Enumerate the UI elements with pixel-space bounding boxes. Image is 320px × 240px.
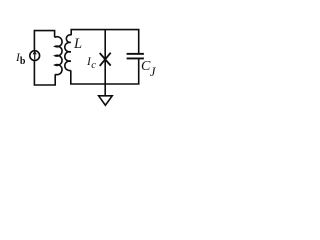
current source Ib arrow head bbox=[33, 52, 36, 55]
wire: right loop bottom bbox=[71, 59, 140, 84]
ground triangle bbox=[99, 96, 113, 105]
label Ic bbox=[87, 57, 96, 72]
current source Ib (circle) bbox=[30, 51, 40, 61]
label L bbox=[74, 37, 82, 52]
wire: left loop top bbox=[34, 31, 54, 51]
current source Ib arrow shaft bbox=[34, 52, 36, 59]
ground stub bbox=[104, 84, 106, 96]
wire: right loop top bbox=[71, 30, 139, 53]
capacitor CJ plates bbox=[127, 53, 144, 55]
josephson junction X (critical current Ic) bbox=[100, 53, 111, 66]
wire: left loop bottom bbox=[34, 61, 55, 86]
label Ib bbox=[16, 53, 25, 67]
label CJ bbox=[141, 60, 155, 78]
inductor: transformer left winding bbox=[55, 37, 62, 75]
inductor L: transformer right winding bbox=[65, 35, 71, 71]
josephson junction branch wire bbox=[104, 30, 106, 84]
